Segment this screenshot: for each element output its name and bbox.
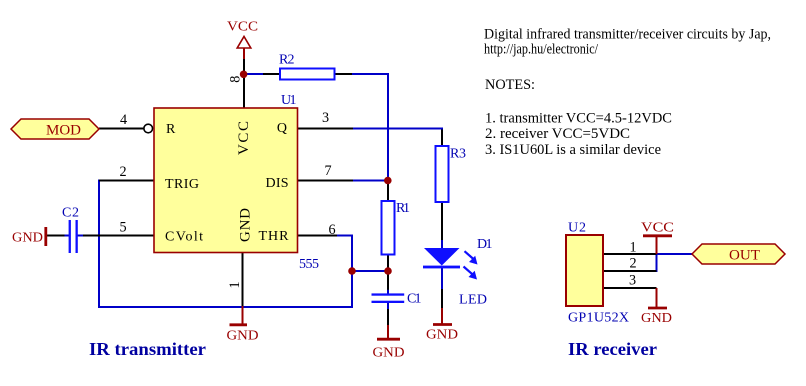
svg-text:LED: LED — [459, 293, 487, 308]
svg-text:U2: U2 — [568, 221, 586, 236]
svg-text:R2: R2 — [279, 53, 295, 68]
svg-text:555: 555 — [299, 257, 319, 272]
svg-text:VCC: VCC — [641, 220, 674, 235]
svg-text:D1: D1 — [477, 237, 493, 252]
svg-text:OUT: OUT — [729, 248, 760, 264]
svg-text:2: 2 — [119, 164, 126, 180]
svg-text:2: 2 — [629, 256, 636, 272]
svg-text:8: 8 — [227, 76, 243, 83]
svg-text:3. IS1U60L is a similar device: 3. IS1U60L is a similar device — [485, 142, 661, 158]
svg-text:TRIG: TRIG — [165, 177, 199, 192]
svg-text:4: 4 — [120, 112, 127, 128]
svg-text:Digital infrared transmitter/r: Digital infrared transmitter/receiver ci… — [484, 27, 771, 43]
svg-text:GND: GND — [373, 345, 405, 360]
svg-text:3: 3 — [322, 110, 329, 126]
svg-text:R1: R1 — [396, 201, 410, 216]
svg-text:2. receiver VCC=5VDC: 2. receiver VCC=5VDC — [485, 126, 630, 142]
svg-text:1: 1 — [227, 281, 243, 288]
svg-text:GND: GND — [641, 310, 672, 325]
svg-text:http://jap.hu/electronic/: http://jap.hu/electronic/ — [484, 42, 599, 58]
svg-text:MOD: MOD — [46, 123, 81, 139]
svg-text:IR transmitter: IR transmitter — [89, 339, 206, 359]
svg-text:R3: R3 — [450, 147, 466, 162]
svg-text:R: R — [166, 122, 176, 137]
svg-text:GND: GND — [238, 208, 254, 242]
svg-text:NOTES:: NOTES: — [485, 77, 535, 93]
svg-text:C1: C1 — [407, 292, 422, 307]
svg-text:THR: THR — [259, 229, 290, 244]
svg-text:IR receiver: IR receiver — [568, 339, 657, 359]
svg-text:6: 6 — [328, 222, 335, 238]
svg-text:U1: U1 — [281, 93, 297, 108]
svg-text:C2: C2 — [62, 206, 79, 221]
svg-text:VCC: VCC — [227, 19, 258, 34]
svg-text:DIS: DIS — [266, 176, 289, 191]
svg-text:3: 3 — [629, 273, 636, 289]
svg-text:Q: Q — [277, 121, 287, 136]
svg-text:GP1U52X: GP1U52X — [568, 311, 629, 326]
svg-text:GND: GND — [426, 327, 458, 342]
svg-text:7: 7 — [324, 163, 331, 179]
svg-text:1: 1 — [629, 240, 636, 256]
svg-text:VCC: VCC — [236, 121, 252, 155]
svg-text:1. transmitter VCC=4.5-12VDC: 1. transmitter VCC=4.5-12VDC — [485, 111, 672, 127]
svg-text:GND: GND — [12, 230, 43, 245]
svg-text:GND: GND — [227, 328, 259, 343]
svg-text:5: 5 — [119, 220, 126, 236]
